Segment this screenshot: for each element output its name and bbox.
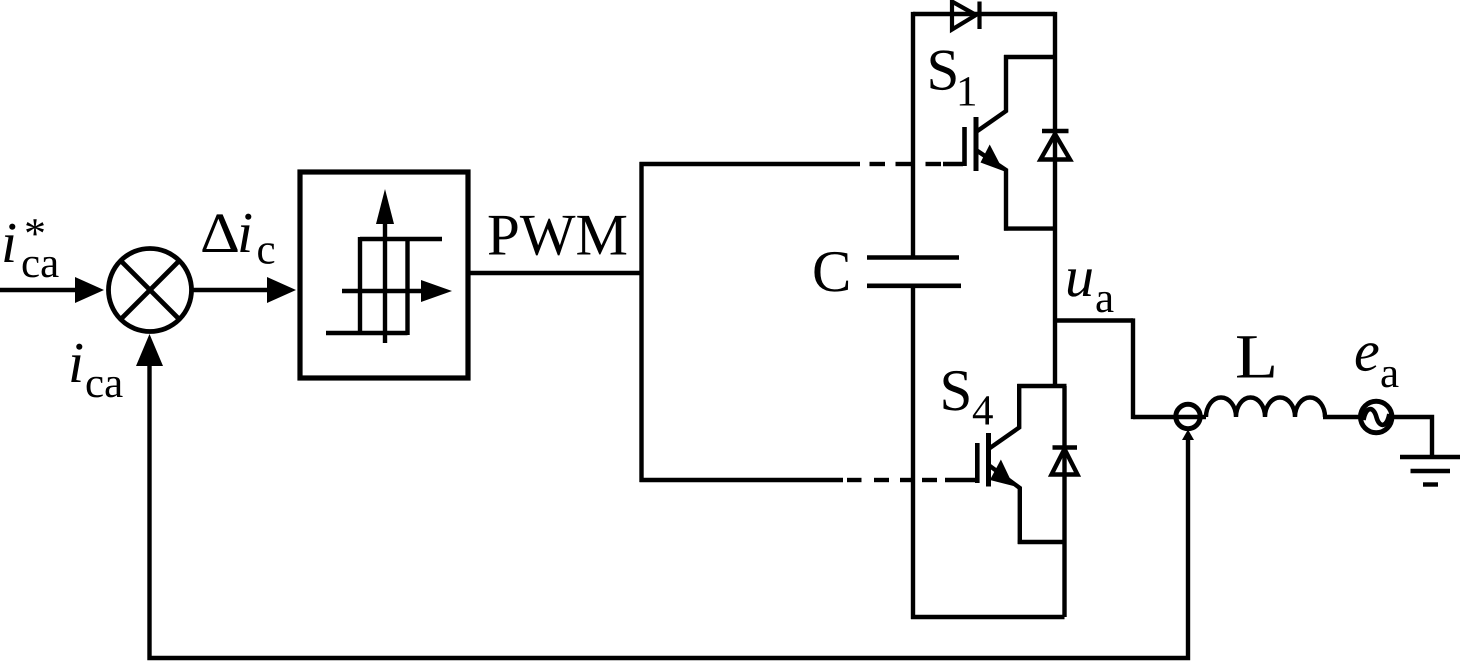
feedback wire ica <box>150 363 1189 658</box>
wire source to ground <box>1392 417 1432 457</box>
IGBT S1 <box>965 55 1058 231</box>
summing junction <box>109 249 192 332</box>
bottom gate line dashes <box>847 478 976 482</box>
label PWM <box>489 216 627 256</box>
wire inductor to source <box>1323 415 1360 419</box>
bottom gate line solid part <box>640 478 844 482</box>
hysteresis loop <box>326 237 442 335</box>
S1 emitter arrow <box>981 145 1004 172</box>
bottom rail wire <box>911 615 1065 619</box>
S4 emitter arrow <box>990 460 1014 487</box>
label ica <box>71 344 122 398</box>
label S4 <box>943 371 992 425</box>
S1 gate bar <box>962 127 967 166</box>
S4 collector lead <box>989 384 1020 449</box>
arrowhead into block <box>267 277 296 303</box>
S4 emitter lead <box>989 465 1020 544</box>
S4 top connector <box>1017 384 1066 388</box>
label delta i c (current error) <box>202 214 274 264</box>
top gate line solid part <box>640 162 861 166</box>
S1 bottom connector <box>1004 226 1057 230</box>
right bus wire (S1 branch to ua node to S4) <box>1053 12 1057 386</box>
S4 branch vertical wire <box>1062 386 1066 617</box>
gate-drive box left side <box>639 162 643 482</box>
dc bus left upper wire <box>911 12 915 258</box>
wire input i*ca <box>0 288 78 292</box>
ground <box>1400 457 1460 485</box>
S4 gate bar <box>975 443 980 483</box>
hysteresis symbol horizontal axis <box>342 280 452 302</box>
label L <box>1237 336 1274 377</box>
feedback arrowhead into summing junction <box>136 334 163 366</box>
label C <box>814 252 848 292</box>
sensor tap arrow <box>1182 430 1194 441</box>
arrowhead input <box>75 277 104 303</box>
IGBT S4 <box>977 384 1066 544</box>
wire PWM output <box>468 271 644 275</box>
S1 emitter lead <box>976 150 1006 231</box>
top gate line dashes <box>870 162 964 166</box>
label ea <box>1356 343 1399 387</box>
ac source ea <box>1361 401 1392 432</box>
S1 body bar <box>974 117 979 171</box>
top rail wire <box>913 12 1055 16</box>
S4 bottom connector <box>1018 540 1067 544</box>
series diode on top rail <box>952 2 980 30</box>
S1 top connector <box>1004 55 1057 59</box>
capacitor C plates <box>867 258 961 286</box>
label i*ca (reference current) <box>4 219 58 277</box>
label S1 <box>930 50 974 105</box>
inductor L <box>1206 398 1325 418</box>
S4 body bar <box>986 433 991 487</box>
dc bus left lower wire <box>911 286 915 619</box>
freewheel diode of S1 <box>1041 131 1071 160</box>
current sensor circle <box>1176 404 1200 428</box>
S1 collector lead <box>976 55 1006 132</box>
wire sum to hysteresis block <box>193 288 270 292</box>
node ua wires <box>1055 318 1206 419</box>
freewheel diode of S4 <box>1052 448 1078 475</box>
hysteresis symbol vertical axis <box>376 189 394 343</box>
label ua <box>1068 269 1114 312</box>
hysteresis comparator block U1 <box>300 172 468 378</box>
